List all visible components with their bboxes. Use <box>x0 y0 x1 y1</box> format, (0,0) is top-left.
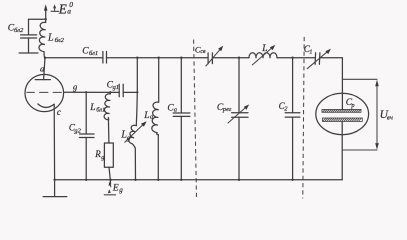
label Cсв <box>195 44 206 55</box>
wire top rail right corner <box>320 58 343 110</box>
triode U1 envelope <box>25 74 64 111</box>
svg-text:R: R <box>94 149 101 159</box>
capacitor Cg2 <box>79 92 94 180</box>
label Eg <box>112 183 123 194</box>
node Cg2/rail <box>85 179 87 181</box>
svg-text:g1: g1 <box>113 84 119 91</box>
node Rg/rail <box>110 179 112 181</box>
wire top rail (L to C1) <box>277 57 315 59</box>
svg-text:g: g <box>127 134 131 142</box>
svg-text:бл1: бл1 <box>89 50 98 57</box>
label Cg2 <box>69 122 82 134</box>
node C2/rail <box>291 179 293 181</box>
node top rail / Срег branch <box>238 57 240 59</box>
node +Ea supply terminal <box>44 4 48 19</box>
svg-text:бл1: бл1 <box>96 106 105 113</box>
plate Cp bottom (hatched) <box>322 118 362 121</box>
label Cg1 <box>107 80 119 91</box>
svg-text:вч: вч <box>387 115 393 122</box>
svg-text:2: 2 <box>284 105 288 112</box>
wire Lg branch upper <box>136 58 137 126</box>
svg-text:бл2: бл2 <box>55 37 65 44</box>
svg-text:g2: g2 <box>74 127 81 134</box>
wire top rail (Cбл1 to Cсв) <box>107 57 209 59</box>
svg-text:1: 1 <box>309 48 312 55</box>
wire grid net <box>64 91 120 93</box>
wire supply top horizontal <box>29 18 46 20</box>
svg-text:бл2: бл2 <box>14 27 24 34</box>
inductor La <box>152 58 159 180</box>
boundary dashed line right <box>303 37 304 199</box>
capacitor C2 <box>285 58 300 180</box>
svg-text:р: р <box>350 102 354 109</box>
arrow of L <box>252 45 275 65</box>
node cathode/rail <box>53 179 55 181</box>
label Rg <box>94 149 105 161</box>
node Срег/rail <box>238 179 240 181</box>
wire top rail (Cсв to L) <box>212 57 249 59</box>
inductor Lg (variable) <box>129 125 137 180</box>
label Срег <box>217 103 232 113</box>
node top rail / La branch <box>158 57 160 59</box>
svg-text:a: a <box>150 114 153 121</box>
capacitor Ca <box>173 58 190 180</box>
label C1 <box>304 44 313 55</box>
label Uвч <box>380 109 393 122</box>
wire bottom rail <box>55 179 343 181</box>
wire Cp bottom lead <box>341 121 343 179</box>
arrow of Cсв <box>206 46 223 66</box>
node junction Ea/Cbl2 <box>45 18 47 20</box>
boundary dashed line left <box>194 40 197 199</box>
capacitor Cg1 <box>119 84 137 97</box>
svg-text:g: g <box>73 81 77 91</box>
wire Uвч top stub <box>342 78 377 80</box>
resistor Rg <box>104 143 113 167</box>
inductor Lбл2 <box>39 19 46 58</box>
label Ea0 <box>58 0 74 16</box>
plus polarity mark at Ea <box>51 4 59 11</box>
label Cбл2 <box>8 23 24 34</box>
svg-text:a: a <box>40 63 44 73</box>
arrow Uвч (double-headed) <box>375 80 379 150</box>
device Cp envelope <box>316 93 369 134</box>
arrow of Lg <box>125 121 147 142</box>
svg-text:L: L <box>261 44 267 54</box>
svg-text:0: 0 <box>69 0 73 9</box>
label Cбл1 <box>82 47 98 58</box>
cathode <box>38 104 55 180</box>
wire Uвч bottom stub <box>342 149 377 151</box>
svg-text:E: E <box>58 1 67 16</box>
anode lead <box>44 58 45 80</box>
label La <box>143 111 153 121</box>
node Eg supply terminal <box>108 182 111 187</box>
svg-text:a: a <box>174 106 177 113</box>
node Lg/rail <box>134 179 136 181</box>
node La/rail <box>157 179 159 181</box>
inductor L (variable, series) <box>249 53 277 58</box>
svg-text:g: g <box>119 186 123 194</box>
svg-text:св: св <box>200 49 206 55</box>
svg-text:E: E <box>112 183 119 193</box>
wire top rail left segment (anode node to Cбл1) <box>45 57 103 59</box>
capacitor Cбл1 <box>103 52 107 64</box>
node top rail / Ca branch <box>180 57 182 59</box>
capacitor Срег (variable) <box>232 58 248 180</box>
node Ca/rail <box>180 179 182 181</box>
node top rail / Lg branch <box>136 57 138 59</box>
svg-text:L: L <box>143 111 149 121</box>
node grid/Cg2 <box>85 91 87 93</box>
arrow of C1 <box>307 49 331 69</box>
anode plate <box>35 79 50 81</box>
label Lбл2 <box>47 32 65 44</box>
label Lg <box>120 130 130 142</box>
arrow of Срег <box>228 104 249 123</box>
node grid/Lбл1 <box>109 91 111 93</box>
label Ca <box>167 103 177 113</box>
inductor Lбл1 <box>104 92 110 143</box>
svg-text:c: c <box>57 107 61 117</box>
label C2 <box>279 101 289 113</box>
node anode junction <box>44 57 46 59</box>
node grid / Lg branch <box>136 91 138 93</box>
svg-text:L: L <box>89 103 95 113</box>
capacitor Cбл2 <box>21 19 37 52</box>
capacitor Cсв (variable, series) <box>208 53 212 64</box>
capacitor C1 (variable, series) <box>315 53 320 65</box>
node top rail / C2 branch <box>291 57 293 59</box>
svg-text:L: L <box>47 32 54 43</box>
label Lбл1 <box>89 103 105 113</box>
plate Cp top (hatched) <box>322 109 361 112</box>
ground (Cбл2) <box>19 52 38 54</box>
ground (main) <box>43 180 67 197</box>
minus polarity mark at Eg <box>104 189 115 195</box>
svg-text:рег: рег <box>222 106 232 113</box>
grid (dashed electrode) <box>27 91 62 93</box>
wire Rg to Eg terminal <box>109 167 111 183</box>
label Cp <box>346 98 355 109</box>
